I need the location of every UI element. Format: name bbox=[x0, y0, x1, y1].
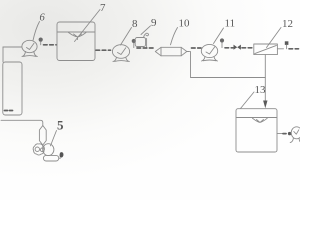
valve after pump 11 bbox=[220, 38, 224, 47]
wire dashed pump6 to tank 7 bbox=[44, 44, 57, 46]
label 13 leader bbox=[241, 92, 255, 109]
label 5 leader bbox=[51, 131, 57, 146]
valve after unit 12 bbox=[285, 41, 289, 49]
water level tank 13 bbox=[237, 117, 277, 119]
svg-text:12: 12 bbox=[282, 18, 293, 30]
wire dashed bowtie to membrane unit 12 bbox=[242, 47, 253, 49]
dark drop mark bbox=[60, 152, 64, 157]
wire concentrate drop from unit 12 to tank 13 bbox=[264, 55, 266, 101]
label 8 leader bbox=[121, 28, 132, 46]
wire outlet unit 12 bbox=[277, 48, 283, 50]
wire inlet to pump 6 bbox=[3, 46, 22, 48]
valve after pump 6 bbox=[39, 38, 43, 45]
junction dot bbox=[288, 132, 291, 135]
pump 11 bbox=[201, 44, 217, 61]
svg-text:5: 5 bbox=[57, 118, 64, 133]
svg-text:9: 9 bbox=[151, 17, 157, 29]
wire junction drop from vessel 10 and recycle line bbox=[191, 52, 266, 78]
wire dashed tank7 to pump 8 bbox=[96, 49, 111, 51]
svg-text:8: 8 bbox=[132, 18, 138, 30]
wire dashed to pump 11 bbox=[192, 47, 202, 49]
pump 6 bbox=[22, 40, 37, 56]
wire tank13 outlet bbox=[277, 133, 283, 135]
settling tank (tall, left) bbox=[3, 62, 22, 115]
mixing tank 7 bbox=[57, 22, 95, 61]
svg-text:6: 6 bbox=[40, 13, 46, 24]
bowtie valve bbox=[234, 45, 241, 50]
membrane unit 12 bbox=[254, 44, 278, 55]
valve after pump 8 bbox=[132, 39, 136, 48]
label 6 leader bbox=[33, 22, 40, 41]
label 9 leader bbox=[141, 26, 151, 35]
wire dashed pump8/device9 to vessel 10 bbox=[137, 47, 154, 49]
wire capsule to pump 5 bbox=[42, 145, 44, 147]
label 7 leader bbox=[75, 10, 101, 42]
wire dashed tank13 to pump bbox=[283, 133, 288, 135]
label 10 leader bbox=[171, 28, 178, 45]
wire dosing line from settling tank bbox=[1, 120, 43, 126]
wire down to settling tank bbox=[2, 47, 4, 62]
pump at right edge bbox=[290, 127, 302, 143]
wire dashed pump11 to bowtie valve bbox=[225, 47, 233, 49]
label 12 leader bbox=[267, 28, 282, 48]
svg-text:13: 13 bbox=[255, 84, 267, 96]
reactor vessel 10 bbox=[155, 47, 189, 56]
label 11 leader bbox=[214, 28, 224, 44]
dosing pump 5 assembly bbox=[33, 144, 60, 161]
tank 13 bbox=[236, 109, 277, 152]
sludge marks inside tank bbox=[5, 110, 13, 112]
svg-text:10: 10 bbox=[179, 18, 191, 30]
vortex funnel tank 13 bbox=[253, 118, 268, 122]
arrow into tank 13 bbox=[263, 101, 267, 109]
wire dashed outlet to right edge bbox=[289, 48, 299, 50]
vortex funnel tank 7 bbox=[69, 33, 87, 40]
rotameter capsule bbox=[39, 126, 46, 146]
svg-text:11: 11 bbox=[225, 18, 236, 30]
pump 8 bbox=[112, 45, 129, 62]
dosing device 9 bbox=[135, 33, 148, 48]
water level tank 7 bbox=[58, 31, 95, 33]
svg-text:7: 7 bbox=[100, 2, 106, 14]
